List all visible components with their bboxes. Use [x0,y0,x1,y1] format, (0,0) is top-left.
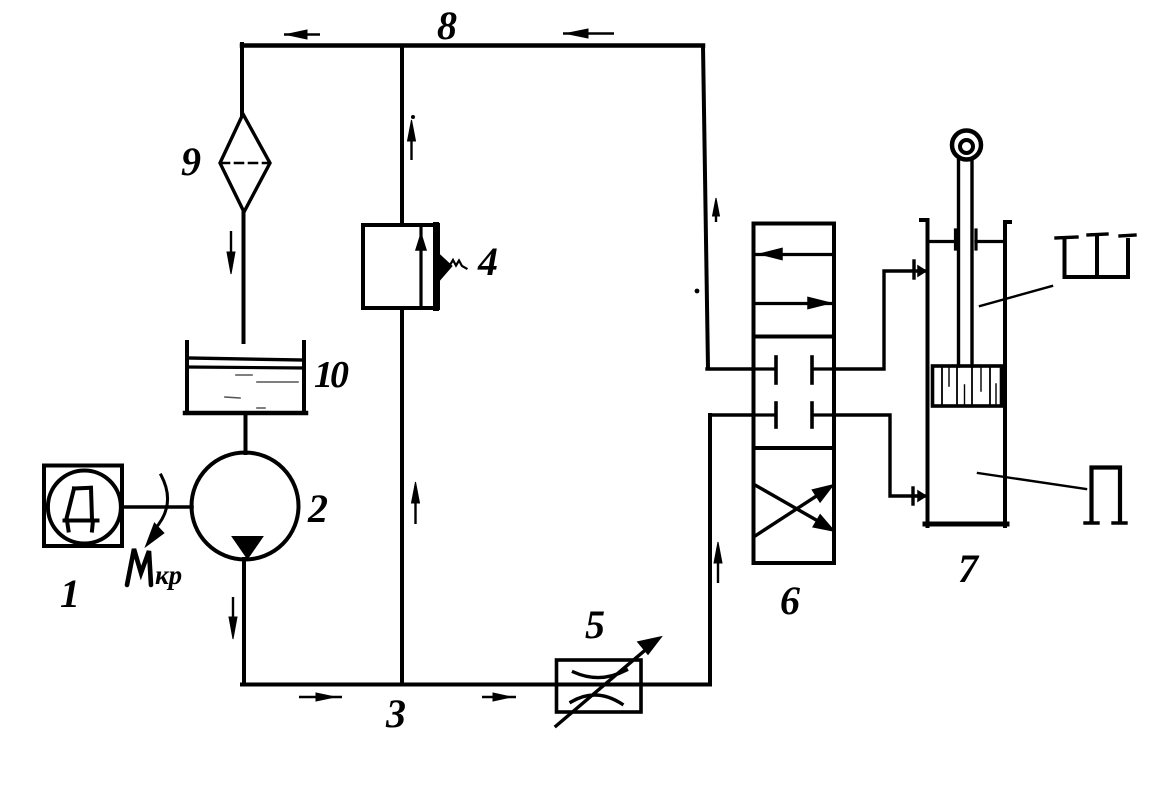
svg-text:кр: кр [155,560,182,590]
svg-text:9: 9 [181,139,201,184]
svg-text:5: 5 [585,602,605,647]
svg-text:2: 2 [307,486,328,531]
svg-text:4: 4 [477,239,498,284]
svg-text:10: 10 [314,354,349,396]
svg-text:8: 8 [437,3,457,48]
svg-text:6: 6 [780,578,800,623]
svg-text:3: 3 [385,691,406,736]
svg-text:7: 7 [958,546,980,591]
svg-text:1: 1 [60,571,80,616]
